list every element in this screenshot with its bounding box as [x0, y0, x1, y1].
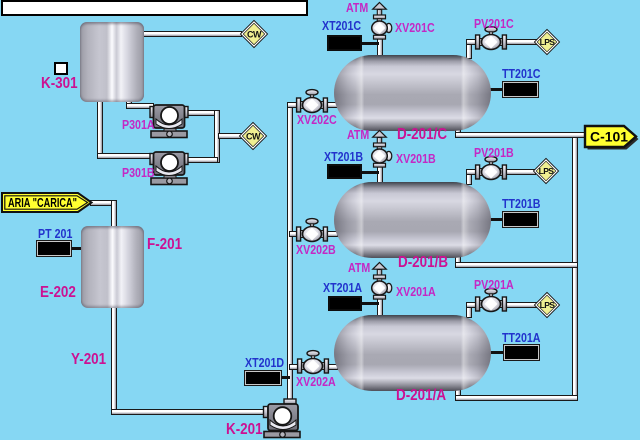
valve PV201B: [473, 152, 509, 182]
label K-201: [226, 422, 263, 438]
valve PV201A: [473, 284, 509, 314]
pump P301B: [147, 147, 191, 187]
vessel D-201/B: [334, 182, 491, 258]
label XV201C: [395, 21, 435, 34]
wire PV201C riser: [466, 41, 472, 59]
wire cyl bottom-left drop: [97, 98, 103, 159]
label TT201B: [502, 197, 541, 210]
instrument box TT201A: [504, 345, 539, 360]
wire PV201C to LPS: [502, 39, 537, 45]
label E-202: [40, 285, 76, 301]
wire XV202C branch: [287, 102, 338, 108]
valve XV202B: [294, 214, 330, 244]
node K-301 status square: [54, 62, 68, 75]
wire ARIA banner to F-201: [90, 200, 117, 206]
svg-text:LPS: LPS: [540, 300, 556, 310]
wire P301B discharge: [186, 157, 218, 163]
instrument box TT201C: [503, 82, 538, 97]
label XV202B: [296, 243, 336, 256]
svg-text:LPS: LPS: [540, 37, 556, 47]
label XV202C: [297, 113, 337, 126]
wire XV202A branch: [289, 364, 338, 370]
node stub TT201C: [488, 88, 505, 91]
instrument box XT201B: [327, 164, 362, 179]
instrument box PT201: [37, 241, 71, 256]
valve XV202A: [295, 346, 331, 376]
wire pump discharge header: [214, 110, 220, 163]
label PV201A: [474, 278, 514, 291]
wire right collector: [572, 132, 578, 401]
label P301A: [122, 118, 155, 131]
vessel D-201/C: [334, 55, 491, 131]
label P301B: [122, 166, 155, 179]
valve XV202C: [294, 85, 330, 115]
wire vent B to vessel: [377, 166, 383, 187]
wire P301A discharge: [186, 110, 220, 116]
label PV201C: [474, 17, 514, 30]
wire to P301A suction: [126, 103, 154, 109]
indicator diamond LPS C: [533, 28, 561, 56]
label PT 201: [38, 227, 72, 240]
wire PV201B riser: [466, 171, 472, 185]
label F-201: [147, 237, 182, 253]
svg-text:ARIA "CARICA": ARIA "CARICA": [8, 196, 77, 210]
label PV201B: [474, 146, 514, 159]
banner C-101: [583, 124, 640, 152]
label XT201D: [245, 356, 284, 369]
wire vessel A outlet to collector: [455, 395, 578, 401]
label XV201B: [396, 152, 436, 165]
column E-202/F-201 drum: [81, 226, 144, 308]
wire PV201A to LPS: [502, 302, 537, 308]
wire vent A to vessel: [377, 298, 383, 320]
wire vent C to vessel: [377, 38, 383, 60]
indicator diamond LPS B: [532, 157, 560, 185]
valve PV201C: [473, 22, 509, 52]
label XT201B: [324, 150, 363, 163]
valve XV201A with ATM vent arrow: [364, 262, 394, 303]
wire PV201A riser: [466, 304, 472, 318]
instrument box TT201B: [503, 212, 538, 227]
label XV201A: [396, 285, 436, 298]
wire down into F-201: [111, 200, 117, 228]
wire to K-201 suction: [111, 409, 265, 415]
node stub XT201B: [360, 171, 379, 174]
wire XV202B branch: [289, 231, 338, 237]
wire vessel C outlet to C-101: [455, 132, 588, 138]
indicator diamond LPS A: [533, 291, 561, 319]
vessel D-201/A: [334, 315, 491, 391]
svg-text:CW: CW: [247, 29, 262, 39]
label ATM B: [347, 128, 369, 141]
label D-201/C: [397, 127, 447, 143]
label TT201C: [502, 67, 541, 80]
instrument box XT201A: [328, 296, 362, 311]
banner ARIA "CARICA": [1, 192, 95, 214]
indicator diamond CW (pumps): [238, 121, 268, 151]
label XT201A: [323, 281, 362, 294]
wire PV201A left: [466, 302, 482, 308]
valve XV201B with ATM vent arrow: [364, 130, 394, 171]
svg-text:C-101: C-101: [590, 129, 628, 145]
valve XV201C with ATM vent arrow: [364, 2, 394, 43]
node stub XT201A: [360, 302, 379, 305]
wire vessel C outlet down: [455, 124, 461, 138]
wire vessel B outlet to collector: [455, 262, 578, 268]
indicator diamond CW (top): [239, 19, 269, 49]
wire P301A suction stub: [126, 98, 132, 107]
node stub PT201: [71, 247, 83, 250]
instrument box XT201C: [327, 35, 362, 51]
wire vessel B outlet down: [455, 250, 461, 268]
wire to P301B suction: [97, 153, 154, 159]
label ATM C: [346, 1, 368, 14]
label Y-201: [71, 352, 106, 368]
instrument box XT201D: [245, 371, 281, 385]
label XV202A: [296, 375, 336, 388]
wire PV201C left: [466, 39, 482, 45]
shared svg gradient defs: [0, 0, 1, 1]
column K-301 drum: [80, 22, 144, 102]
label D-201/B: [398, 255, 448, 271]
node stub XT201D: [279, 376, 290, 379]
label ATM A: [348, 261, 370, 274]
wire to CW2: [218, 133, 242, 139]
node stub TT201B: [488, 218, 505, 221]
label XT201C: [322, 19, 361, 32]
title bar: [1, 0, 308, 16]
svg-text:LPS: LPS: [539, 166, 555, 176]
wire PV201B to LPS: [502, 169, 536, 175]
label D-201/A: [396, 388, 446, 404]
wire F-201 bottom drop: [111, 305, 117, 415]
wire K-201 discharge riser: [287, 102, 293, 403]
label TT201A: [502, 331, 541, 344]
svg-text:CW: CW: [246, 131, 261, 141]
pump P301A: [147, 100, 191, 140]
wire cyl K-301 to CW1: [143, 31, 242, 37]
node stub TT201A: [488, 351, 505, 354]
label K-301: [41, 76, 78, 92]
wire PV201B left: [466, 169, 482, 175]
pump K-201: [259, 395, 303, 440]
wire vessel A outlet down: [455, 383, 461, 401]
node stub XT201C: [360, 42, 379, 45]
